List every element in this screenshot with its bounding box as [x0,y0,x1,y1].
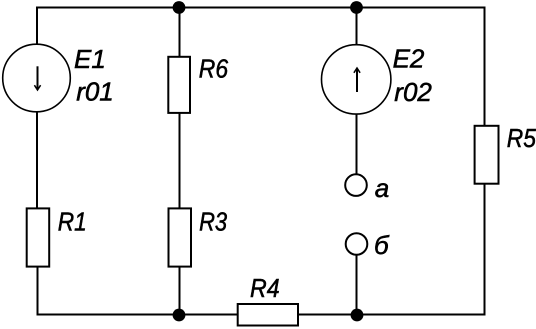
svg-text:R1: R1 [58,207,87,237]
svg-text:R6: R6 [199,54,229,84]
svg-text:E2: E2 [393,43,425,73]
svg-text:r02: r02 [394,77,432,107]
svg-text:a: a [375,173,389,203]
svg-text:E1: E1 [74,44,106,74]
svg-text:R3: R3 [199,207,227,237]
svg-text:б: б [374,230,390,260]
svg-text:R4: R4 [250,273,280,303]
svg-text:R5: R5 [507,123,536,153]
svg-text:r01: r01 [76,77,114,107]
